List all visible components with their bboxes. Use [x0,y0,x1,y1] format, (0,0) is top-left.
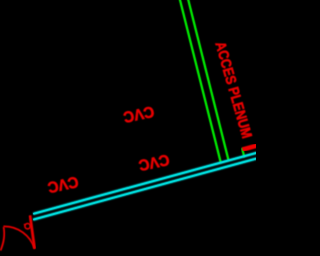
door swing arc (red) [3,226,34,249]
label CVC 1 (center) [122,102,156,125]
label ACCES PLENUM [211,40,254,141]
red corner line bottom-left [1,227,5,251]
wire: cyan duct top line [33,153,257,214]
wire: green duct wall line 2 (right) [188,0,229,160]
label CVC 2 (right of center) [137,150,171,173]
wire: short green stub under red bar [242,148,244,157]
door handle curl (red) [24,224,31,229]
wire: cyan duct left end cap [32,213,34,220]
red bar at right edge [242,145,258,149]
wire: green duct wall line 1 (left) [180,0,221,162]
door leaf (red) [30,215,35,248]
label CVC 3 (left) [46,172,80,195]
wire: cyan duct bottom line [33,158,257,219]
